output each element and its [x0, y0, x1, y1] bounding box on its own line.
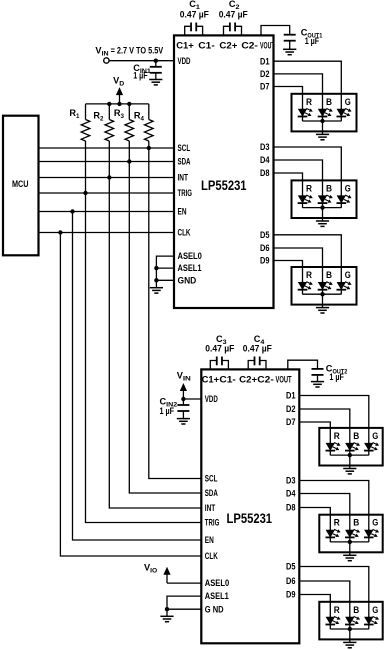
svg-text:D6: D6	[260, 243, 270, 253]
capacitor C1	[185, 23, 203, 36]
svg-text:SCL: SCL	[205, 474, 218, 484]
svg-text:D8: D8	[260, 168, 270, 178]
IC U1 LP55231 body	[174, 35, 274, 308]
svg-text:TRIG: TRIG	[178, 188, 193, 198]
cathode rail	[330, 628, 369, 630]
RGB LED module B3 (U2 D5/D6/D9)	[319, 602, 382, 640]
wire to ground	[322, 208, 324, 221]
wire to ground	[349, 455, 351, 468]
wire U1 ASEL1 tie	[156, 267, 174, 269]
wire to ground	[322, 294, 324, 307]
svg-text:CLK: CLK	[205, 551, 218, 561]
wire to ground	[349, 542, 351, 555]
wire U1 D5 to LED	[274, 235, 342, 267]
svg-text:ASEL0: ASEL0	[205, 578, 229, 588]
svg-text:D5: D5	[286, 562, 296, 572]
svg-text:= 2.7 V TO 5.5V: = 2.7 V TO 5.5V	[111, 45, 164, 55]
ground (U2 ASEL1/GND)	[160, 616, 173, 621]
wire U2 D9 to LED	[299, 595, 330, 602]
resistor R4	[145, 120, 154, 142]
cathode rail	[303, 120, 342, 122]
capacitor CIN1	[150, 67, 162, 73]
wire U2 ASEL1 tie	[167, 596, 201, 616]
wire VD rail to R3	[128, 104, 130, 120]
wire U1 VOUT to COUT1	[261, 26, 290, 36]
ground (COUT1)	[283, 49, 296, 54]
wire R2 to INT line	[108, 141, 110, 178]
wire VIN to U2 VDD	[183, 398, 201, 400]
wire SDA down to U2	[129, 162, 201, 494]
wire junction to CIN2	[182, 399, 184, 405]
svg-text:C2-: C2-	[257, 375, 274, 385]
wire U2 D3 to LED	[299, 481, 369, 515]
svg-text:LP55231: LP55231	[227, 511, 273, 526]
svg-text:0.47 µF: 0.47 µF	[180, 10, 209, 20]
wire CLK down to U2	[60, 233, 201, 557]
wire VIO to U2 ASEL0	[167, 582, 201, 584]
RGB LED module B1 (U2 D1/D2/D7)	[319, 428, 382, 466]
wire U2 D2 to LED	[299, 409, 350, 428]
svg-text:D5: D5	[260, 230, 270, 240]
svg-text:CLK: CLK	[178, 228, 191, 238]
ground (U1 ASEL/GND)	[150, 288, 163, 293]
wire U2 GND tie	[167, 608, 201, 610]
svg-text:R: R	[306, 183, 313, 193]
ground (COUT2)	[311, 382, 324, 387]
svg-text:B: B	[326, 97, 332, 107]
svg-text:D3: D3	[260, 142, 270, 152]
ground	[316, 308, 329, 313]
svg-text:IN: IN	[102, 50, 110, 57]
wire to ground	[322, 121, 324, 134]
wire R3 to SDA line	[128, 141, 130, 162]
ground	[316, 221, 329, 226]
svg-text:R: R	[334, 605, 341, 615]
wire U1 D6 to LED	[274, 248, 323, 267]
wire U1 ASEL0 tie	[156, 256, 174, 288]
wire to ground	[349, 629, 351, 642]
MCU block	[3, 116, 39, 256]
svg-text:EN: EN	[205, 535, 214, 545]
svg-text:GND: GND	[178, 275, 197, 285]
wire U1 D7 to LED	[274, 87, 303, 94]
svg-text:C1-: C1-	[219, 375, 236, 385]
svg-text:VOUT: VOUT	[276, 375, 292, 385]
svg-text:SDA: SDA	[205, 488, 218, 498]
wire MCU to U1 INT	[39, 177, 175, 179]
wire VD rail to R4	[148, 104, 150, 120]
svg-text:D6: D6	[286, 576, 296, 586]
svg-text:D7: D7	[286, 417, 296, 427]
node SCL junction	[147, 146, 151, 150]
svg-text:D7: D7	[260, 82, 270, 92]
svg-text:D1: D1	[286, 391, 296, 401]
svg-text:G: G	[345, 97, 351, 107]
svg-text:C1+: C1+	[176, 40, 194, 50]
wire U1 D2 to LED	[274, 74, 323, 94]
junction	[320, 119, 324, 123]
svg-text:G: G	[372, 605, 378, 615]
wire VIN to U1 VDD	[109, 60, 174, 62]
svg-text:C1-: C1-	[198, 40, 215, 50]
svg-text:ASEL1: ASEL1	[205, 591, 229, 601]
svg-text:D3: D3	[286, 476, 296, 486]
svg-text:D9: D9	[260, 256, 270, 266]
wire U1 D3 to LED	[274, 147, 342, 180]
wire MCU to U1 CLK	[39, 232, 175, 234]
cathode rail	[330, 454, 369, 456]
svg-text:C2+: C2+	[219, 40, 237, 50]
wire EN down to U2	[73, 212, 202, 541]
wire MCU to U1 TRIG	[39, 192, 175, 194]
wire COUT2 to ground	[317, 375, 319, 382]
svg-text:C2-: C2-	[241, 40, 258, 50]
svg-text:D4: D4	[260, 155, 270, 165]
svg-text:D8: D8	[286, 503, 296, 513]
svg-text:B: B	[353, 518, 359, 528]
svg-text:MCU: MCU	[12, 179, 29, 189]
wire U2 D7 to LED	[299, 422, 330, 428]
VIN terminal (open circle)	[104, 58, 109, 63]
svg-text:C2+: C2+	[239, 375, 257, 385]
ground (CIN2)	[177, 419, 190, 424]
svg-text:0.47 µF: 0.47 µF	[219, 10, 248, 20]
svg-text:G ND: G ND	[205, 604, 224, 614]
svg-text:0.47 µF: 0.47 µF	[205, 343, 234, 353]
junction	[320, 292, 324, 296]
ground	[316, 134, 329, 139]
VIO arrow	[163, 567, 170, 583]
VD rail wire	[86, 103, 149, 105]
node VD/R3	[127, 102, 131, 106]
VD supply arrow	[116, 87, 123, 104]
svg-text:VDD: VDD	[178, 56, 191, 66]
wire U2 VOUT to COUT2	[288, 360, 318, 369]
wire U1 D8 to LED	[274, 173, 303, 180]
svg-text:INT: INT	[178, 173, 189, 183]
RGB LED module A3 (U1 D5/D6/D9)	[292, 267, 357, 305]
junction	[348, 540, 352, 544]
svg-text:R: R	[306, 97, 313, 107]
capacitor C4	[248, 357, 266, 370]
svg-text:B: B	[326, 183, 332, 193]
wire U1 D1 to LED	[274, 61, 342, 94]
cathode rail	[303, 207, 342, 209]
capacitor CIN2	[177, 405, 189, 411]
svg-text:1 µF: 1 µF	[329, 372, 344, 382]
RGB LED module A1 (U1 D1/D2/D7)	[292, 94, 357, 132]
wire U2 D1 to LED	[299, 396, 369, 428]
capacitor COUT2	[312, 369, 324, 375]
wire R4 to SCL line	[148, 141, 150, 148]
wire VD rail to R1	[85, 104, 87, 120]
svg-text:B: B	[353, 605, 359, 615]
wire MCU to U1 EN	[39, 211, 175, 213]
wire CIN1 to ground	[155, 73, 157, 80]
IC U2 LP55231 body	[201, 369, 299, 643]
svg-text:C1+: C1+	[202, 375, 220, 385]
wire U2 D5 to LED	[299, 567, 369, 602]
node TRIG junction	[83, 191, 87, 195]
svg-text:B: B	[353, 431, 359, 441]
svg-text:R: R	[306, 270, 313, 280]
node VD/R2	[107, 102, 111, 106]
svg-text:1 µF: 1 µF	[160, 406, 175, 416]
svg-text:TRIG: TRIG	[205, 518, 220, 528]
resistor R1	[81, 120, 90, 142]
svg-text:D1: D1	[260, 56, 270, 66]
junction	[348, 627, 352, 631]
svg-text:B: B	[326, 270, 332, 280]
RGB LED module B2 (U2 D3/D4/D8)	[319, 515, 382, 553]
node CLK junction	[58, 230, 62, 234]
junction	[348, 453, 352, 457]
wire junction to CIN1	[155, 61, 157, 67]
RGB LED module A2 (U1 D3/D4/D8)	[292, 180, 357, 218]
wire MCU to U1 SDA	[39, 161, 175, 163]
ground	[343, 642, 356, 647]
resistor R2	[105, 120, 114, 142]
svg-text:ASEL0: ASEL0	[178, 251, 202, 261]
wire COUT1 to ground	[289, 41, 291, 50]
wire INT down to U2	[109, 178, 201, 509]
node VD/arrow	[117, 102, 121, 106]
ground (CIN1)	[149, 80, 162, 85]
svg-text:D9: D9	[286, 590, 296, 600]
node VDD1/CIN1 junction	[154, 59, 158, 63]
wire MCU to U1 SCL	[39, 147, 175, 149]
wire U2 D4 to LED	[299, 494, 350, 515]
svg-text:SDA: SDA	[178, 157, 191, 167]
wire U1 D9 to LED	[274, 261, 303, 268]
svg-text:G: G	[345, 183, 351, 193]
svg-text:G: G	[372, 518, 378, 528]
svg-text:D4: D4	[286, 489, 296, 499]
node GND tie	[154, 278, 158, 282]
svg-text:G: G	[372, 431, 378, 441]
svg-text:G: G	[345, 270, 351, 280]
svg-text:R: R	[334, 431, 341, 441]
node VDD2/CIN2 junction	[181, 397, 185, 401]
cathode rail	[303, 293, 342, 295]
wire U2 D8 to LED	[299, 508, 330, 515]
wire CIN2 to ground	[182, 411, 184, 419]
wire TRIG down to U2	[86, 193, 202, 523]
wire U1 GND tie	[156, 279, 174, 281]
svg-text:VOUT: VOUT	[260, 40, 275, 50]
svg-text:D2: D2	[260, 69, 270, 79]
svg-text:INT: INT	[205, 503, 216, 513]
svg-text:EN: EN	[178, 207, 187, 217]
capacitor C2	[224, 23, 242, 36]
node U2 GND tie	[165, 607, 169, 611]
cathode rail	[330, 541, 369, 543]
VIN arrow (U2)	[180, 383, 187, 399]
svg-text:ASEL1: ASEL1	[178, 263, 202, 273]
svg-text:1 µF: 1 µF	[305, 36, 320, 46]
svg-text:LP55231: LP55231	[201, 178, 247, 193]
node INT junction	[107, 175, 111, 179]
svg-text:R: R	[334, 518, 341, 528]
svg-text:SCL: SCL	[178, 143, 191, 153]
node SDA junction	[127, 159, 131, 163]
junction	[320, 205, 324, 209]
svg-text:VDD: VDD	[205, 394, 218, 404]
ground	[343, 555, 356, 560]
svg-text:1 µF: 1 µF	[133, 71, 148, 81]
capacitor C3	[210, 357, 228, 370]
wire VD rail to R2	[108, 104, 110, 120]
svg-text:0.47 µF: 0.47 µF	[243, 343, 272, 353]
ground	[343, 469, 356, 474]
node EN junction	[70, 209, 74, 213]
capacitor COUT1	[284, 35, 296, 41]
wire R1 to TRIG line	[85, 141, 87, 193]
node ASEL1 tie	[154, 266, 158, 270]
wire U2 D6 to LED	[299, 581, 350, 602]
svg-text:D2: D2	[286, 404, 296, 414]
resistor R3	[125, 120, 134, 142]
wire U1 D4 to LED	[274, 160, 323, 180]
wire SCL down to U2	[149, 148, 202, 479]
